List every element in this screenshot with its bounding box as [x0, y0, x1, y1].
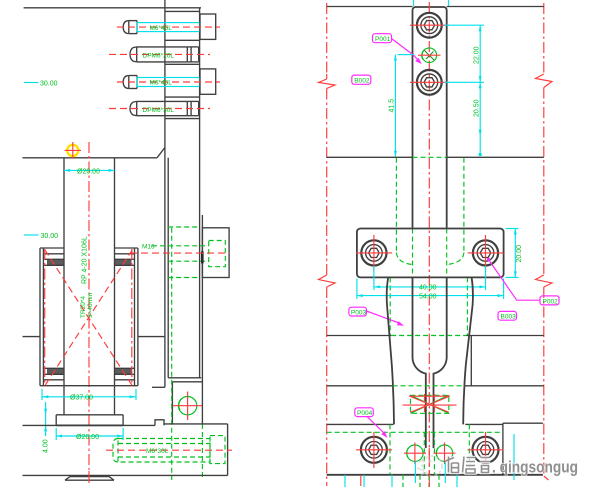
dowel pin row4 centerline — [109, 108, 210, 110]
hidden bolt head — [210, 436, 225, 464]
svg-text:DPM6*20L: DPM6*20L — [143, 53, 175, 60]
bottom plate top edge — [327, 423, 394, 425]
ejector shaft left edge — [63, 158, 65, 415]
dimension 20.00 (plate thickness) — [506, 228, 519, 230]
svg-text:B002: B002 — [354, 78, 370, 85]
svg-text:. qingsongug: . qingsongug — [492, 458, 578, 477]
dimension 40.00 — [373, 266, 375, 290]
hidden thread circle left — [407, 445, 423, 461]
bushing groove lines top-left — [43, 253, 64, 255]
green dashed vertical through bar — [171, 228, 173, 480]
green dashed vertical bar right — [201, 424, 203, 480]
hidden funnel edges in plate — [389, 424, 391, 474]
svg-text:P001: P001 — [375, 36, 391, 43]
M16 thread hidden lines — [168, 245, 209, 247]
hidden bolt centerline — [106, 449, 232, 451]
ejector bar — [413, 7, 447, 228]
svg-text:DPM6*30L: DPM6*30L — [143, 107, 175, 114]
hidden slot edges inside plate — [412, 229, 414, 278]
locating key below plate — [65, 477, 114, 481]
hidden fillets at plate — [396, 253, 412, 265]
plate bolt right — [473, 240, 498, 265]
bottom plate bolt left — [361, 437, 387, 463]
yellow grip marker — [67, 145, 78, 156]
leader P001 — [392, 39, 420, 62]
label P003 + leader — [349, 307, 367, 316]
funnel outer left edge — [387, 277, 394, 424]
svg-text:40.00: 40.00 — [419, 285, 437, 292]
boundary y=385.8 — [327, 385, 393, 387]
dimension Ø37.00 — [42, 396, 135, 398]
M16 centerline — [130, 252, 230, 254]
bushing pitch centerline left — [44, 249, 46, 387]
M16 dark plug — [201, 251, 204, 263]
dimension Ø20.00 — [64, 169, 115, 171]
plate edge y=387.3 between bushing and bar — [152, 386, 165, 388]
bushing groove lines top-right — [115, 253, 135, 255]
svg-text:41.5: 41.5 — [389, 99, 396, 113]
bolt M6*45L row1 head — [123, 21, 129, 34]
bar bottom double edge — [168, 377, 201, 379]
bottom plate bottom edge — [23, 474, 228, 476]
M16 thread hidden rect — [209, 241, 226, 267]
bottom plate top edge right part — [164, 423, 228, 425]
hidden plate split line — [327, 431, 503, 433]
svg-text:30.00: 30.00 — [41, 233, 59, 240]
ejector shaft right edge — [114, 158, 116, 415]
M16 block — [202, 228, 229, 278]
label B002 — [352, 75, 371, 84]
bottom plate key tab — [155, 420, 164, 426]
U-slot right edge + stem — [434, 277, 447, 448]
short plate edge y=336.6 left — [23, 336, 41, 338]
top plate edge — [24, 7, 201, 9]
plate edge y=336.6 between bushing and bar — [138, 336, 165, 338]
bar hole separators — [165, 10, 200, 12]
bushing outer right edges — [134, 248, 136, 386]
svg-text:P004: P004 — [357, 410, 373, 417]
bolt M6*45L row3 head — [123, 76, 129, 89]
bolt hole second — [417, 70, 442, 95]
dowel pin DPM6*20L row2 — [130, 47, 137, 62]
left break line — [326, 3, 328, 74]
bolt M6*45L row1 shaft (highlighted) — [137, 23, 200, 32]
thread circle (green) — [422, 48, 437, 63]
svg-text:P002: P002 — [543, 298, 559, 305]
M16 hidden outline above — [168, 226, 199, 228]
label P004 + leader — [355, 408, 374, 417]
step edge right — [470, 336, 472, 386]
boundary y=335.5 — [327, 335, 391, 337]
svg-text:RP 4-20 X106L: RP 4-20 X106L — [82, 236, 89, 284]
bushing diagonal cross — [45, 250, 133, 387]
top plate edge — [327, 6, 413, 8]
bushing pitch centerline right — [131, 249, 133, 387]
dimension 54.00 — [356, 279, 358, 300]
dimension 41.5 — [398, 54, 414, 56]
svg-text:M6*30L: M6*30L — [146, 448, 169, 455]
watermark logo circle — [422, 456, 442, 476]
bottom plate top edge — [23, 424, 156, 426]
svg-text:B003: B003 — [501, 314, 517, 321]
bolt M6*45L row1 boss — [200, 14, 216, 39]
label B003 — [498, 311, 517, 320]
right break line — [543, 3, 545, 74]
shaft centerline — [88, 142, 90, 470]
notch chamfer to bar — [157, 148, 165, 158]
dowel pin DPM6*30L row4 — [130, 101, 137, 115]
plate left face edge at y=157.8 — [23, 157, 158, 159]
vertical bar left inner edge — [167, 158, 169, 378]
bushing outer left edges — [39, 248, 41, 386]
hidden thread circle right — [436, 445, 452, 461]
bottom plate right edge — [227, 424, 229, 476]
svg-text:M6*45L: M6*45L — [150, 25, 173, 32]
thread circle in bar — [178, 397, 196, 415]
bar top corner ticks — [413, 0, 415, 6]
hidden funnel inner edges below plate — [389, 277, 391, 335]
U-slot left edge + stem — [412, 277, 425, 448]
hidden block edges below — [395, 158, 397, 253]
extension lines below bottom plate — [344, 475, 346, 487]
dimension 4.00 — [45, 402, 47, 436]
hidden edge through bar y=157.5 — [413, 156, 447, 158]
dimension Ø26.00 — [56, 435, 123, 437]
svg-text:22.00: 22.00 — [474, 46, 481, 64]
retainer plate — [357, 229, 504, 278]
bolt M6*45L row3 shaft (highlighted) — [137, 78, 200, 87]
bolt M6*45L row1 centerline — [117, 26, 220, 28]
bottom plate bottom edge — [327, 474, 543, 476]
plate bolt left — [361, 240, 386, 265]
svg-text:20.50: 20.50 — [474, 99, 481, 117]
bar lower section edges — [171, 382, 173, 424]
svg-text:M6*45L: M6*45L — [150, 80, 173, 87]
svg-text:30.00: 30.00 — [40, 81, 58, 88]
svg-text:Ø26.00: Ø26.00 — [76, 434, 99, 441]
bushing top edge — [40, 247, 64, 249]
svg-text:M16: M16 — [142, 244, 155, 251]
flange — [56, 414, 123, 416]
bushing groove lines bottom-left — [43, 367, 64, 369]
svg-text:Ø20.00: Ø20.00 — [77, 168, 100, 175]
funnel outer right edge — [463, 277, 473, 424]
dowel pin row2 centerline — [109, 53, 210, 55]
bottom plate inner edge — [502, 423, 504, 475]
hidden stem edges in plate — [423, 432, 425, 475]
bolt M6*45L row3 boss — [200, 69, 216, 94]
section boundary y=157.5 — [327, 156, 413, 158]
svg-text:20.00: 20.00 — [516, 245, 523, 263]
vertical bar right inner edge — [199, 8, 201, 378]
label P001 — [373, 34, 392, 43]
svg-text:P003: P003 — [351, 309, 367, 316]
hidden bolt M6*30L in bottom plate: shaft — [118, 439, 210, 463]
bolt hole top (cap screw) — [417, 13, 442, 38]
vertical bar left edge — [164, 0, 166, 387]
svg-text:54.00: 54.00 — [419, 294, 437, 301]
label P002 + leader — [489, 260, 541, 301]
watermark text 微信号 (approximated glyph strokes) — [446, 457, 491, 474]
leader 30.00 upper — [24, 82, 39, 84]
svg-text:4.00: 4.00 — [43, 439, 50, 453]
svg-text:Ø37.00: Ø37.00 — [70, 395, 93, 402]
bottom plate bolt right — [473, 437, 499, 463]
bushing bottom edge — [40, 385, 138, 387]
bushing groove lines bottom-right — [115, 367, 135, 369]
gate hatch block — [411, 395, 449, 413]
bar centerline — [428, 2, 430, 487]
svg-text:TR20*4: TR20*4 — [80, 296, 87, 318]
bolt M6*45L row3 centerline — [117, 81, 220, 83]
dimension 22.00 / 20.50 extension lines — [444, 24, 484, 26]
svg-text:3=40mm: 3=40mm — [87, 293, 94, 318]
vertical bar right edge — [201, 215, 203, 424]
leader 30.00 lower — [24, 234, 39, 236]
